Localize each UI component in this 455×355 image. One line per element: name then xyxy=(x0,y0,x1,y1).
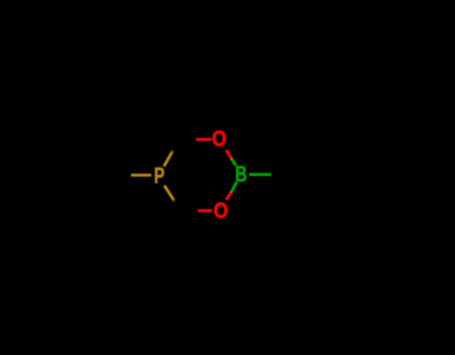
bond P-CH3 left half (gold) xyxy=(125,174,152,177)
bond O2-C6 half (red) xyxy=(194,209,212,212)
bond B-O2 green half xyxy=(231,182,236,192)
bond O1-C4 half (red) xyxy=(192,138,212,141)
bond B-C7 right half (green) xyxy=(249,173,275,176)
svg-text:O: O xyxy=(214,200,229,224)
svg-text:P: P xyxy=(154,165,165,189)
bond O2-B red half xyxy=(226,192,231,200)
bond P-C4 ring upper half (gold) xyxy=(164,149,174,166)
bond P-C6 ring lower half (gold) xyxy=(164,186,175,203)
bond O1-B red half xyxy=(226,150,231,158)
svg-text:O: O xyxy=(212,128,227,152)
bond O1-B green half xyxy=(231,158,236,165)
svg-text:B: B xyxy=(235,162,247,187)
